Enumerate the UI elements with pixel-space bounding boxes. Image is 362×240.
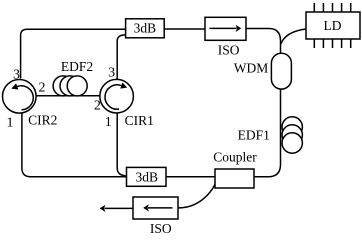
svg-text:2: 2 (94, 98, 101, 113)
wire: WDM bottom, down through EDF1, curving left into Coupler (254, 89, 281, 177)
wire: CIR2 port3 up and right to top 3dB (21, 29, 126, 78)
svg-text:3dB: 3dB (135, 169, 158, 184)
isolator ISO (bottom) (133, 197, 178, 236)
svg-text:ISO: ISO (218, 43, 240, 58)
isolator ISO (top) (205, 17, 246, 57)
wire: EDF2 fiber between CIR2 and CIR1 (34, 95, 101, 97)
wire: CIR1 port1 down, curving into bottom 3dB left edge (117, 113, 126, 176)
output Coupler (213, 149, 257, 188)
svg-text:LD: LD (324, 18, 342, 33)
wire: CIR1 port3 up, curving into top 3dB left edge (117, 35, 126, 79)
wire: LD left edge curving down-left to WDM junction (281, 29, 306, 44)
3dB coupler (bottom) (127, 167, 167, 186)
wire: CIR2 port1 down and right to bottom 3dB (22, 114, 127, 177)
svg-text:2: 2 (39, 81, 46, 96)
EDF1 fiber coil (238, 117, 303, 153)
svg-text:3dB: 3dB (134, 20, 157, 35)
laser diode LD (306, 3, 360, 48)
svg-text:3: 3 (13, 67, 20, 82)
svg-text:EDF1: EDF1 (238, 128, 270, 143)
wire: top ISO right, curving down to WDM top (246, 29, 281, 54)
wire: top 3dB to top ISO (164, 28, 205, 30)
wire: bottom 3dB to Coupler (166, 176, 215, 178)
output beam arrow (100, 205, 133, 212)
3dB coupler (top) (126, 19, 165, 38)
svg-text:WDM: WDM (234, 60, 269, 75)
WDM coupler capsule (234, 53, 292, 89)
svg-text:CIR1: CIR1 (125, 113, 154, 128)
circulator CIR2 (3, 80, 58, 128)
wire: Coupler bottom-left curving to bottom ISO (179, 184, 216, 208)
svg-text:EDF2: EDF2 (61, 59, 93, 74)
svg-text:CIR2: CIR2 (28, 112, 57, 127)
EDF2 fiber coil (53, 59, 93, 96)
svg-text:1: 1 (7, 115, 14, 130)
svg-text:1: 1 (105, 115, 112, 130)
circulator CIR1 (100, 79, 154, 127)
svg-text:Coupler: Coupler (213, 149, 257, 164)
svg-text:ISO: ISO (150, 221, 172, 236)
svg-text:3: 3 (108, 66, 115, 81)
